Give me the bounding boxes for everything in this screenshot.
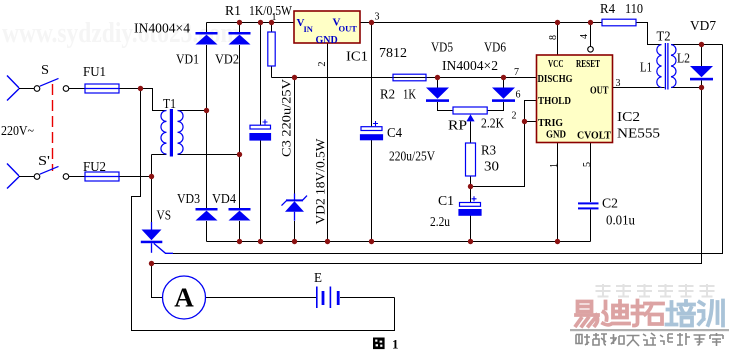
- svg-text:S: S: [41, 62, 49, 77]
- svg-text:R2: R2: [380, 87, 395, 102]
- svg-text:FU1: FU1: [83, 64, 106, 79]
- svg-text:C4: C4: [387, 125, 402, 140]
- svg-text:30: 30: [484, 159, 499, 174]
- svg-text:T2: T2: [657, 29, 671, 44]
- svg-text:2.2u: 2.2u: [430, 214, 450, 229]
- svg-text:220u/25V: 220u/25V: [389, 149, 435, 164]
- svg-text:1: 1: [549, 163, 560, 168]
- svg-text:IC1: IC1: [346, 49, 368, 64]
- svg-text:VD4: VD4: [212, 191, 236, 206]
- svg-text:L2: L2: [677, 51, 690, 66]
- svg-text:L1: L1: [640, 60, 652, 75]
- svg-text:RESET: RESET: [576, 59, 600, 70]
- svg-text:VS: VS: [157, 208, 172, 223]
- svg-text:2: 2: [512, 111, 517, 122]
- svg-text:R3: R3: [481, 143, 496, 158]
- svg-text:4: 4: [579, 34, 590, 39]
- svg-text:1: 1: [272, 12, 277, 23]
- svg-text:GND: GND: [316, 35, 338, 46]
- svg-text:NE555: NE555: [617, 126, 660, 141]
- svg-text:VD6: VD6: [484, 40, 506, 55]
- svg-text:1K: 1K: [403, 87, 416, 102]
- svg-text:CVOLT: CVOLT: [577, 131, 611, 142]
- svg-text:VD1: VD1: [176, 52, 199, 67]
- svg-text:DISCHG: DISCHG: [538, 74, 573, 85]
- svg-text:2: 2: [317, 62, 328, 67]
- svg-text:3: 3: [616, 78, 621, 89]
- svg-text:3: 3: [375, 12, 380, 23]
- svg-text:R1: R1: [225, 3, 241, 18]
- svg-text:1: 1: [392, 337, 399, 350]
- svg-text:0.01u: 0.01u: [606, 213, 635, 228]
- svg-text:FU2: FU2: [83, 159, 106, 174]
- svg-text:7: 7: [514, 67, 519, 78]
- svg-text:C1: C1: [438, 193, 454, 208]
- svg-text:VD2 18V/0.5W: VD2 18V/0.5W: [313, 138, 328, 225]
- svg-text:5: 5: [582, 162, 593, 167]
- svg-text:110: 110: [625, 1, 643, 16]
- svg-text:C3 220u/25V: C3 220u/25V: [279, 78, 294, 157]
- svg-text:GND: GND: [546, 130, 566, 141]
- svg-text:THOLD: THOLD: [538, 96, 571, 107]
- svg-text:7812: 7812: [379, 45, 407, 60]
- svg-text:IN4004×4: IN4004×4: [134, 21, 190, 36]
- svg-text:VD5: VD5: [431, 40, 453, 55]
- svg-text:TRIG: TRIG: [538, 118, 563, 129]
- svg-text:2.2K: 2.2K: [481, 116, 504, 131]
- svg-text:VD7: VD7: [690, 18, 716, 33]
- svg-text:8: 8: [548, 35, 559, 40]
- svg-text:6: 6: [516, 90, 521, 101]
- svg-text:A: A: [174, 283, 194, 313]
- svg-text:220V~: 220V~: [1, 123, 34, 138]
- svg-text:VD3: VD3: [177, 191, 200, 206]
- svg-text:VCC: VCC: [548, 59, 564, 70]
- svg-text:OUT: OUT: [590, 86, 609, 97]
- svg-text:T1: T1: [163, 96, 176, 111]
- svg-text:RP: RP: [448, 118, 467, 133]
- svg-text:VD2: VD2: [215, 52, 239, 67]
- svg-text:IN: IN: [304, 24, 314, 34]
- svg-text:IN4004×2: IN4004×2: [442, 58, 498, 73]
- svg-text:R4: R4: [600, 1, 615, 16]
- svg-text:IC2: IC2: [617, 109, 640, 124]
- svg-text:OUT: OUT: [339, 24, 358, 34]
- svg-text:S': S': [38, 153, 50, 168]
- svg-text:C2: C2: [602, 196, 618, 211]
- svg-text:E: E: [314, 270, 322, 285]
